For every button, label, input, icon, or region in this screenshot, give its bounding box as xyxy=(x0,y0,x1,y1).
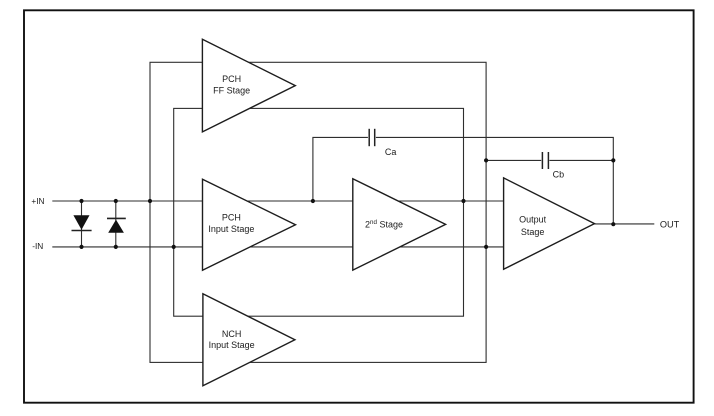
svg-text:FF Stage: FF Stage xyxy=(213,86,250,96)
svg-text:+IN: +IN xyxy=(31,196,44,206)
svg-text:-IN: -IN xyxy=(32,241,43,251)
svg-text:Cb: Cb xyxy=(553,170,565,180)
svg-text:Input Stage: Input Stage xyxy=(208,224,254,234)
svg-text:OUT: OUT xyxy=(660,219,680,229)
svg-text:Input Stage: Input Stage xyxy=(209,340,255,350)
svg-text:Stage: Stage xyxy=(521,227,545,237)
svg-text:PCH: PCH xyxy=(222,213,241,223)
svg-text:Output: Output xyxy=(519,215,547,225)
svg-text:NCH: NCH xyxy=(222,329,242,339)
svg-text:Ca: Ca xyxy=(385,147,397,157)
svg-text:PCH: PCH xyxy=(222,74,241,84)
